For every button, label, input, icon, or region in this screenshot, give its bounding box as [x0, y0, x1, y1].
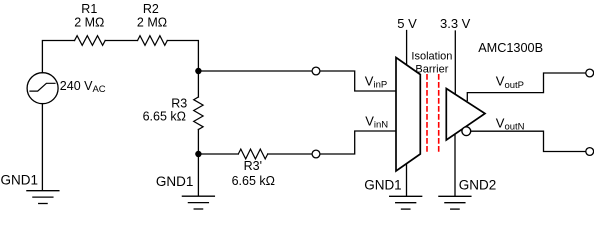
svg-text:6.65 kΩ: 6.65 kΩ: [143, 109, 186, 123]
wire node A to R3: [197, 71, 199, 97]
svg-text:GND2: GND2: [459, 178, 497, 193]
svg-text:R1: R1: [81, 2, 97, 16]
op-amp U1 input trapezoid: [396, 58, 420, 172]
ground GND1 middle: [182, 196, 214, 209]
svg-text:R2: R2: [143, 2, 159, 16]
wire 3.3V supply: [454, 31, 456, 95]
svg-text:3.3 V: 3.3 V: [440, 16, 471, 31]
resistor R1: [75, 36, 106, 46]
wire VoutN: [471, 131, 586, 151]
wire 5V supply: [406, 31, 408, 66]
wire node A to VinP: [198, 71, 396, 91]
svg-text:GND1: GND1: [364, 177, 402, 192]
ground GND1 right: [390, 196, 422, 209]
ground GND2: [439, 196, 471, 209]
svg-text:R3': R3': [244, 159, 262, 173]
wire R3' to VinN: [268, 131, 397, 154]
voltage source V1: [27, 73, 58, 104]
wire node B to R3': [198, 153, 238, 155]
svg-text:2 MΩ: 2 MΩ: [137, 15, 167, 29]
ground GND1 left: [27, 191, 59, 204]
svg-text:Isolation: Isolation: [411, 50, 452, 62]
resistor R3: [194, 97, 203, 130]
svg-text:5 V: 5 V: [397, 16, 417, 31]
wire R2 down to node A: [167, 41, 198, 72]
wire R1 to R2: [105, 40, 137, 42]
svg-text:GND1: GND1: [156, 174, 194, 189]
svg-text:GND1: GND1: [1, 173, 39, 188]
isolation barrier dashed line 2: [438, 74, 440, 154]
svg-text:2 MΩ: 2 MΩ: [74, 15, 104, 29]
terminal circle VoutN: [586, 148, 594, 156]
resistor R3': [238, 149, 267, 159]
wire trapezoid to GND1: [406, 164, 408, 196]
isolation barrier dashed line 1: [426, 74, 428, 154]
wire VoutP: [467, 73, 586, 101]
resistor R2: [138, 36, 168, 46]
terminal circle VoutP: [586, 69, 594, 77]
svg-text:Barrier: Barrier: [415, 64, 448, 76]
node A junction dot: [195, 68, 201, 74]
svg-text:AMC1300B: AMC1300B: [478, 41, 543, 55]
inversion bubble: [462, 127, 471, 136]
terminal circle VinN: [312, 150, 320, 158]
wire R3 to node B: [197, 130, 199, 155]
node B junction dot: [195, 151, 201, 157]
op-amp U1 output triangle: [446, 89, 485, 141]
wire triangle to GND2: [454, 134, 456, 196]
wire node B to ground: [197, 154, 199, 195]
wire source top to R1: [42, 41, 74, 73]
svg-text:6.65 kΩ: 6.65 kΩ: [232, 174, 275, 188]
wire source bottom to ground: [41, 104, 43, 191]
terminal circle VinP: [312, 67, 320, 75]
